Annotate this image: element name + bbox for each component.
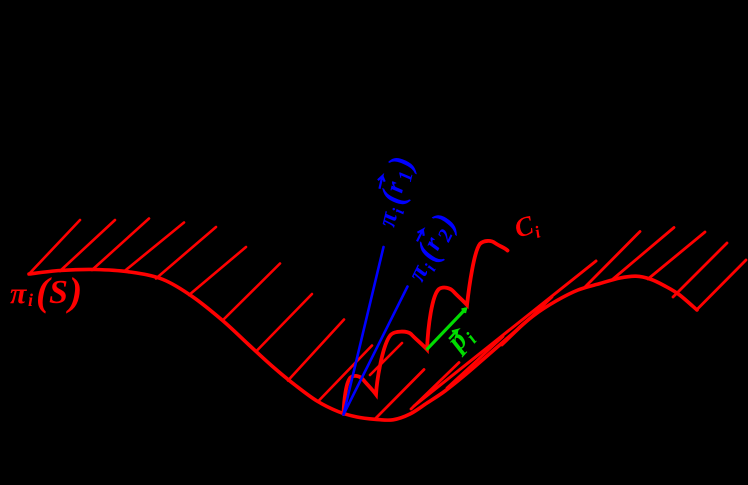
hatch 11 — [370, 343, 402, 375]
hatch group right — [585, 228, 746, 311]
hatch R1 — [585, 232, 640, 288]
hatch 7 — [223, 264, 280, 321]
blue ray r2 — [344, 287, 408, 415]
hatch A — [375, 370, 424, 420]
label pi_i(r2) blue rotated — [398, 207, 463, 288]
svg-text:i: i — [28, 290, 33, 310]
label p_i green rotated — [438, 319, 481, 362]
hatch 2 — [60, 220, 115, 271]
hatch B — [411, 363, 459, 410]
green vector p_i — [427, 309, 467, 350]
svg-text:π: π — [10, 277, 27, 310]
svg-text:π: π — [401, 259, 434, 285]
surface curve pi_i(S) — [29, 269, 697, 420]
hatch 9 — [288, 320, 344, 381]
hatch group rising flank — [375, 261, 596, 419]
hatch 3 — [92, 219, 149, 271]
label C_i red rotated — [511, 208, 543, 247]
hatch 6 — [189, 247, 246, 295]
hatch R5 — [697, 260, 747, 310]
label pi_i(S) — [10, 269, 82, 314]
hatch 10 — [318, 346, 372, 402]
svg-text:): ) — [66, 269, 82, 314]
blue ray r1 — [344, 247, 384, 415]
tangent line long — [414, 261, 596, 406]
hatch 1 — [29, 220, 80, 274]
svg-text:S: S — [49, 274, 68, 311]
hatch B2 — [447, 337, 503, 389]
hatch 5 — [156, 227, 216, 279]
hatch R2 — [613, 228, 674, 280]
scalloped curve C_i — [344, 241, 508, 414]
label pi_i(r1) blue rotated — [368, 153, 421, 231]
hatch R3 — [648, 232, 705, 279]
hatch group left — [29, 219, 402, 402]
hatch B3 — [502, 297, 552, 345]
hatch R4 — [673, 243, 727, 297]
hatch 8 — [256, 294, 312, 352]
hatch 4 — [124, 223, 184, 272]
